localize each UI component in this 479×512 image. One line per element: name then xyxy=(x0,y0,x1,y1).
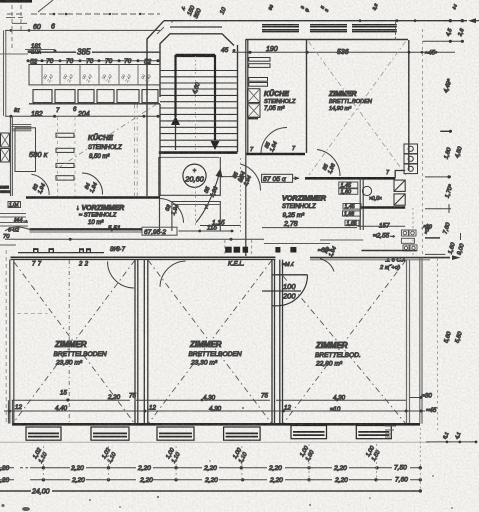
room1 left outer wall xyxy=(10,260,14,424)
window box 2 xyxy=(91,427,129,440)
window box 6 xyxy=(356,426,391,439)
right dim tick y131 xyxy=(440,130,452,132)
boxed 57,05 xyxy=(262,174,293,182)
KUCHE label left xyxy=(88,133,122,160)
right dim line y177 xyxy=(425,176,451,178)
rotated labels 84/8 arc2 xyxy=(84,179,99,194)
vertical dashes x12 x21 xyxy=(12,5,21,30)
stair treads xyxy=(160,71,237,147)
small room box below landing xyxy=(172,202,220,232)
left wall verticals top xyxy=(4,30,6,116)
bottom wall of rooms xyxy=(12,423,420,426)
wall below landing left xyxy=(159,196,161,231)
ZIMMER bottom wall (vorzimmer top) xyxy=(305,177,395,180)
dots on dim line xyxy=(9,115,159,118)
short line y49.5 xyxy=(25,49,55,51)
bathroom bottom wall xyxy=(361,206,405,208)
VORZIMMER left label xyxy=(76,205,124,226)
zimmer door arc xyxy=(317,150,340,177)
short horizontals left xyxy=(0,214,28,227)
KUCHE label right xyxy=(264,89,296,112)
long line y239 xyxy=(5,238,264,240)
dim line 115 xyxy=(178,230,233,232)
stair bay inner outline xyxy=(160,34,234,97)
small room box inner top line xyxy=(172,204,220,206)
window box 1 xyxy=(26,426,391,441)
window bars pair 1 xyxy=(262,25,397,32)
arrow left-pointing at right end of top line xyxy=(470,20,479,22)
dots on line y30.4 xyxy=(10,29,31,32)
labels row A xyxy=(60,390,432,402)
dashed diagonal in kitchen xyxy=(58,105,156,169)
arrow after box xyxy=(293,177,299,179)
dim 1,15 xyxy=(200,225,241,227)
landing left door arc xyxy=(159,199,183,223)
dots on 115 xyxy=(198,230,233,233)
landing second line xyxy=(159,156,219,158)
rotated labels 45 26 top xyxy=(445,27,465,38)
left edge shutter box 2 xyxy=(1,149,10,163)
window row bottom wall line xyxy=(29,103,160,105)
rotated Pe labels xyxy=(323,243,338,258)
horizontal tick y57 left xyxy=(0,53,28,55)
left edge shutter box 1 xyxy=(1,133,10,147)
dim row A y400 xyxy=(12,399,406,401)
rotated labels 85 kitchen door xyxy=(264,138,279,153)
bottom-left wall step xyxy=(8,400,12,423)
corridor door line xyxy=(221,176,247,178)
door arc into vorzimmer from left xyxy=(241,164,261,191)
top long line xyxy=(164,20,467,22)
dots on top line xyxy=(359,19,464,22)
right dim tick y238 xyxy=(425,237,440,239)
inner band line y27 xyxy=(170,26,222,28)
vertical dashed right xyxy=(422,29,424,255)
rotated labels 83/194 arc1 xyxy=(32,180,47,195)
stair left outer wall vertical xyxy=(146,95,148,196)
dim row C y467.8 xyxy=(0,465,422,473)
closet rectangle xyxy=(15,128,36,172)
chamfer band left diagonal xyxy=(157,27,164,34)
right dim line y209 xyxy=(425,208,451,210)
door arc with arrow from landing xyxy=(196,173,220,223)
rotated labels 5,60 5,50 lower xyxy=(444,331,464,344)
left wall sill bars xyxy=(12,125,32,131)
rotated labels 85/19a xyxy=(238,172,253,187)
short dashes y17.5 xyxy=(6,17,23,19)
top-left black bar xyxy=(0,0,32,3)
vertical dotted x413 xyxy=(412,208,414,256)
tick between xyxy=(460,233,462,240)
dim row B y411 xyxy=(4,410,425,412)
rotated labels above y442 xyxy=(442,431,462,440)
room1 vertical dashed centerline xyxy=(68,260,70,424)
bathroom left wall xyxy=(360,178,363,230)
room2 label ZIMMER xyxy=(189,340,242,367)
stair landing thick bottom line xyxy=(159,151,238,154)
line y243.5 right xyxy=(264,243,330,245)
vertical dashed x240 xyxy=(240,158,242,232)
dim 2,78 xyxy=(262,227,357,229)
small dark bar fixture xyxy=(248,117,258,120)
labels row B xyxy=(15,404,437,414)
threshold baseline left xyxy=(18,252,104,254)
dots on 190/536 xyxy=(248,51,437,54)
right dim line y41 xyxy=(423,40,464,42)
vertical walls right of bath xyxy=(408,40,410,171)
dark blobs left edge xyxy=(0,186,11,194)
diagonal dashes upper right room xyxy=(309,42,407,176)
stair inner rect (eye) xyxy=(176,56,216,140)
tiny schedule text xyxy=(41,71,152,84)
rotated labels 85/194 corridor xyxy=(232,168,247,183)
VORZIMMER right label xyxy=(282,194,327,220)
right dim line y254 xyxy=(425,253,445,255)
N-hatched fixture boxes xyxy=(394,180,405,205)
vertical dotted connectors xyxy=(43,428,420,491)
room1 label ZIMMER xyxy=(54,340,107,367)
long line y30.4 xyxy=(5,29,160,31)
vorzimmer bottom wall thick xyxy=(30,228,143,230)
stair bay outer chamfer left xyxy=(147,21,164,95)
left outer wall double xyxy=(10,117,12,196)
window box 3 xyxy=(157,427,194,440)
kitchen counter bars xyxy=(56,133,74,180)
door jamb dashed verticals xyxy=(225,240,252,256)
dot on 385 line xyxy=(54,50,57,53)
boxed 67,95 xyxy=(142,227,177,235)
top tiny rotated marks xyxy=(180,3,458,13)
vertical dashed in kitchen x57 xyxy=(56,117,58,196)
top wall of upper rooms xyxy=(246,39,409,41)
window boxes row xyxy=(33,90,158,103)
rotated labels 1,60 9,00 xyxy=(448,242,466,256)
right wall corner vertical xyxy=(395,21,397,40)
dimension line 182 204 xyxy=(5,115,160,117)
wall right segment xyxy=(310,257,450,259)
dots on line y14 xyxy=(53,13,142,16)
wc wall lines xyxy=(320,239,363,241)
up arrow on left flight xyxy=(171,116,180,125)
dimension line 190 536 xyxy=(232,51,455,53)
arrow at right end of wall line xyxy=(452,255,461,260)
wall room1/2 xyxy=(135,260,148,426)
window bars pair 3 xyxy=(352,25,397,32)
boiler circle xyxy=(362,186,371,195)
vertical dashed x195 below circle xyxy=(195,187,197,225)
short line y23.4 xyxy=(12,22,27,24)
door arc 1 bottom xyxy=(31,174,49,195)
dimension row 52 70 70 70 70 52 xyxy=(27,58,161,65)
label 100/200 xyxy=(282,282,296,301)
small fixture boxes with circles right xyxy=(401,230,417,251)
rotated fraction labels row xyxy=(32,445,383,465)
rotated label 63/194 xyxy=(164,201,180,216)
kitchen/zimmer wall xyxy=(306,40,308,154)
rotated labels 85/196 xyxy=(203,182,220,198)
threshold marks left xyxy=(33,248,91,252)
landing box xyxy=(159,157,221,195)
room3 diagonal X xyxy=(283,260,406,424)
small arc at room3 top xyxy=(320,259,334,272)
down arrow on right flight xyxy=(211,141,220,150)
room3 label ZIMMER xyxy=(315,341,361,368)
left wall of right apartment xyxy=(246,40,248,257)
projection chain lines above wall rooms1-2 xyxy=(135,105,138,197)
dim row E y491 total 24,00 xyxy=(0,490,420,492)
stair right outer wall xyxy=(237,45,239,152)
vertical dashed in kitchen x75 xyxy=(74,117,76,196)
main thick wall top of rooms xyxy=(11,256,276,258)
schedule band dividers xyxy=(42,65,138,85)
stacked boxed labels xyxy=(339,182,358,194)
room1 diagonal X xyxy=(14,260,135,424)
faint scan line under windows xyxy=(0,441,430,443)
kitchen bottom wall xyxy=(247,153,306,155)
dot at 45 xyxy=(233,49,236,52)
threshold marks center xyxy=(225,247,296,253)
rotated labels 85/196 zimmer door xyxy=(322,160,337,175)
dim row D y479.8 xyxy=(0,477,422,485)
room1 horizontal dashed stub xyxy=(17,313,48,315)
boxed labels lower xyxy=(343,204,362,226)
ZIMMER upper right label xyxy=(328,91,373,112)
dots y239 xyxy=(69,238,233,241)
window bars pair 2 xyxy=(310,25,347,32)
kitchen counter bars right apt xyxy=(249,58,270,87)
door 100/200 room3 xyxy=(272,274,308,276)
diagonal leader line xyxy=(38,0,53,12)
window box 4 xyxy=(224,427,261,440)
hatched boxes kitchen xyxy=(248,89,261,103)
kitchen door arc xyxy=(261,128,287,154)
window box 5 xyxy=(291,426,327,439)
window schedule band xyxy=(29,65,160,85)
room3 right outer wall xyxy=(407,260,410,424)
right short dim line y442 xyxy=(426,441,476,443)
room2 door arc xyxy=(160,261,186,287)
dimension line 385 xyxy=(28,51,160,53)
squiggle arc bottom left xyxy=(5,227,30,231)
stair left inner wall vertical xyxy=(159,104,161,196)
label 150/350 rotated xyxy=(187,5,203,20)
rotated labels 1,60 7,60 xyxy=(424,222,452,235)
short line y245 left xyxy=(0,244,16,246)
wall below kitchen thick xyxy=(26,196,160,199)
door arc 2 bottom xyxy=(82,173,103,195)
wall step right xyxy=(395,171,405,179)
labels 52 70 70 70 70 52 xyxy=(30,58,152,65)
room1 door arc xyxy=(108,262,135,289)
vertical dotted x437 xyxy=(437,258,439,430)
left small box 1,0b xyxy=(8,202,21,208)
right wall bottom steps xyxy=(385,426,396,437)
dim 157 xyxy=(358,225,406,227)
left flight line below arrow xyxy=(175,125,177,150)
rotated labels 1,80 4,50 xyxy=(444,146,464,160)
dashed line y14 xyxy=(7,13,160,15)
room2 diagonal X xyxy=(148,260,272,424)
dotted centerline of stair xyxy=(195,56,197,150)
circle +20,60 xyxy=(183,164,206,187)
inner rect top thick tread xyxy=(176,54,216,56)
wall room2/3 xyxy=(272,260,283,426)
scan speckles xyxy=(1,504,4,507)
dim line right y397.5 xyxy=(410,397,421,399)
stove symbol boxes with circles xyxy=(404,144,418,174)
